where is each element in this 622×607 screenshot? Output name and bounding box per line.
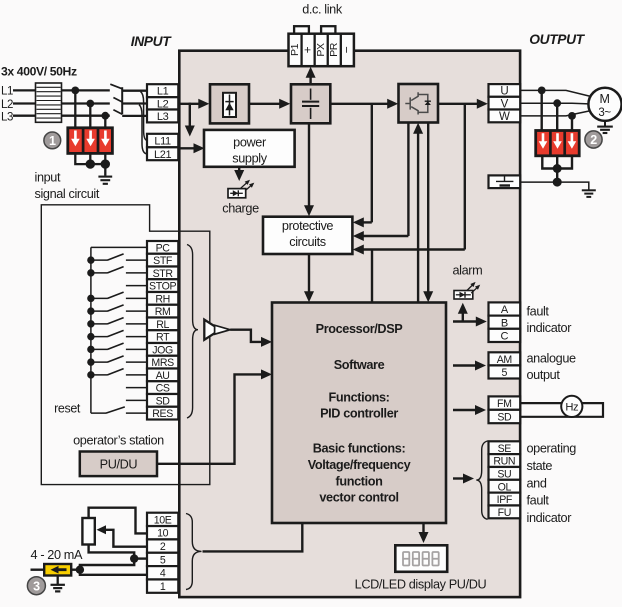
- svg-text:4 - 20 mA: 4 - 20 mA: [31, 548, 83, 562]
- operator station box PU/DU: [80, 452, 157, 477]
- seven segment digits 8888: [403, 552, 439, 566]
- wire W down to arrester: [571, 116, 573, 132]
- svg-text:RT: RT: [156, 332, 170, 344]
- svg-text:input: input: [35, 171, 61, 185]
- arrow down toward charge LED: [234, 170, 244, 181]
- terminal STR stub: [126, 272, 148, 274]
- terminal block L1 L2 L3: [147, 84, 178, 97]
- wire branch up to alarm LED: [462, 313, 464, 322]
- wire branch down to power supply: [189, 103, 191, 127]
- switch wire JOG: [91, 348, 108, 350]
- junction dot MRS: [87, 358, 94, 365]
- svg-text:PC: PC: [156, 242, 171, 254]
- arrow into IGBT box: [387, 99, 398, 109]
- tap wire to terminal L21: [139, 105, 148, 154]
- switch blade AU: [108, 369, 124, 375]
- charge LED: [228, 189, 246, 198]
- arrow into protective circuits right edge middle: [353, 231, 364, 241]
- svg-text:Basic functions:: Basic functions:: [313, 442, 406, 456]
- svg-text:PR: PR: [328, 42, 340, 57]
- switch blade JOG: [108, 343, 124, 349]
- svg-text:FM: FM: [497, 398, 512, 410]
- junction dot output bus: [553, 164, 562, 173]
- switch blade MRS: [108, 356, 124, 362]
- wire L3 down to arrester: [104, 116, 106, 129]
- switch linkage bar: [121, 87, 123, 114]
- svg-text:1: 1: [49, 134, 56, 148]
- junction dot L3: [101, 112, 109, 120]
- svg-text:and: and: [527, 476, 547, 490]
- arrow into terminal B: [476, 317, 487, 327]
- svg-text:PU/DU: PU/DU: [100, 457, 138, 471]
- svg-text:5: 5: [502, 367, 508, 379]
- wire DC bus sense into protective circuits: [362, 221, 372, 223]
- svg-text:SD: SD: [156, 395, 171, 407]
- svg-text:fault: fault: [527, 305, 550, 319]
- d.c. link jumper tab PX-PR: [321, 26, 335, 35]
- svg-text:INPUT: INPUT: [131, 34, 172, 49]
- svg-text:Functions:: Functions:: [328, 391, 389, 405]
- capacitor box: [291, 84, 330, 123]
- svg-text:protective: protective: [282, 219, 334, 233]
- terminal block L11 L21: [147, 134, 178, 148]
- svg-text:L1: L1: [1, 86, 13, 98]
- switch blade RES (reset): [91, 412, 106, 414]
- input surge arrester block: [68, 128, 113, 154]
- terminal block PC..RES: [147, 241, 178, 254]
- wire arrester2 to ground bus: [89, 153, 91, 164]
- svg-text:10: 10: [157, 528, 169, 540]
- wire L11/L21 to power supply: [178, 147, 196, 149]
- junction dot AU: [87, 371, 94, 378]
- Hz meter circle: [561, 396, 582, 417]
- svg-text:B: B: [501, 317, 508, 329]
- arrow down into protective circuits: [304, 205, 314, 216]
- svg-text:W: W: [499, 111, 510, 123]
- arrow into terminal AM: [475, 361, 486, 371]
- output surge arrester block: [536, 131, 580, 156]
- wire dot up to terminal 5 junction: [80, 559, 134, 570]
- svg-text:3x 400V/ 50Hz: 3x 400V/ 50Hz: [1, 65, 77, 79]
- charge LED emission arrows: [241, 181, 249, 188]
- junction dot STR: [87, 269, 94, 276]
- junction dot JOG: [87, 346, 94, 353]
- wire capacitor bottom down to protective circuits: [308, 123, 310, 208]
- svg-text:RM: RM: [155, 306, 171, 318]
- terminal RH stub: [126, 297, 148, 299]
- svg-text:vector control: vector control: [319, 491, 398, 505]
- wire V to motor: [520, 102, 589, 105]
- wire processor to LCD display: [422, 523, 424, 534]
- terminal STF stub: [126, 259, 148, 261]
- junction dot ground bus right: [101, 159, 110, 168]
- wire IGBT feedback down to processor: [427, 123, 429, 294]
- wire to frequency meter output: [453, 409, 477, 411]
- arrow into processor top: [304, 291, 314, 302]
- svg-text:OL: OL: [498, 481, 512, 493]
- wire phase L3 in: [13, 115, 110, 117]
- terminal RL stub: [126, 323, 148, 325]
- curly brace state terminals: [476, 441, 487, 519]
- svg-text:power: power: [233, 135, 267, 149]
- svg-text:supply: supply: [232, 152, 267, 166]
- input signal circuit boundary loop: [41, 205, 210, 485]
- svg-text:SD: SD: [497, 412, 512, 424]
- wire gate drive processor to IGBT: [417, 131, 419, 303]
- terminal JOG stub: [126, 348, 148, 350]
- wire to operating state outputs: [453, 477, 465, 479]
- arrow down toward power supply feed: [185, 126, 195, 137]
- svg-text:4: 4: [160, 568, 166, 580]
- svg-text:PID controller: PID controller: [320, 407, 398, 421]
- ground symbol input side: [98, 176, 112, 178]
- arrow up into d.c. link: [306, 67, 316, 78]
- wire output arrester3 to bus: [557, 156, 572, 169]
- svg-text:MRS: MRS: [151, 357, 174, 369]
- junction dot earth line: [553, 178, 562, 187]
- potentiometer: [82, 518, 94, 545]
- switch wire RL: [91, 323, 108, 325]
- junction dot RT: [87, 333, 94, 340]
- wire potentiometer bottom: [89, 545, 135, 559]
- svg-text:charge: charge: [222, 202, 259, 216]
- svg-text:circuits: circuits: [289, 235, 325, 249]
- frequency meter loop: [520, 403, 603, 417]
- arrow into display: [419, 532, 429, 543]
- svg-text:indicator: indicator: [527, 321, 573, 335]
- switch wire MRS: [91, 361, 108, 363]
- svg-text:−: −: [340, 46, 354, 53]
- potentiometer wiper arrow: [97, 525, 107, 534]
- wire power supply to charge LED: [238, 167, 240, 173]
- terminal block FM SD: [489, 396, 521, 409]
- arrow up into IGBT bottom: [413, 123, 423, 134]
- LCD/LED display box: [395, 545, 447, 572]
- current source 4-20mA: [44, 564, 71, 576]
- svg-text:P1: P1: [289, 43, 301, 56]
- wire to analogue output: [453, 364, 477, 366]
- IGBT inverter box: [399, 84, 439, 123]
- terminal block SE RUN SU OL IPF FU: [489, 441, 521, 454]
- arrow into power supply: [194, 143, 205, 153]
- wire bus to terminal PC: [91, 246, 148, 248]
- wire arrester1 to ground bus: [75, 153, 90, 164]
- arrow into rectifier: [198, 99, 209, 109]
- wire current source to dot: [71, 569, 80, 571]
- svg-text:Processor/DSP: Processor/DSP: [316, 322, 404, 336]
- svg-text:AU: AU: [156, 370, 170, 382]
- wire U down to arrester: [541, 90, 543, 131]
- terminal block 10E 10 2 5 4 1: [147, 513, 178, 526]
- terminal block A B C: [489, 302, 521, 315]
- ground symbol motor: [597, 126, 613, 128]
- svg-text:Hz: Hz: [565, 402, 579, 414]
- wire ground bus to earth: [90, 163, 105, 165]
- motor M 3~: [588, 88, 621, 121]
- svg-text:STF: STF: [153, 255, 173, 267]
- junction dot W: [568, 112, 576, 120]
- svg-text:signal circuit: signal circuit: [35, 187, 100, 201]
- wire motor to ground: [604, 121, 606, 126]
- wire protective circuits down to processor: [308, 254, 310, 295]
- svg-text:AM: AM: [497, 354, 512, 366]
- svg-text:fault: fault: [527, 494, 550, 508]
- processor box: [272, 303, 446, 524]
- wire L2 down to arrester: [89, 104, 91, 130]
- control terminal bus: [90, 247, 92, 413]
- svg-text:SE: SE: [498, 443, 512, 455]
- d.c. link jumper tab P1-+: [294, 26, 309, 35]
- svg-text:L3: L3: [157, 111, 169, 123]
- svg-text:A: A: [501, 304, 509, 316]
- rectifier box: [210, 84, 249, 123]
- wire into protective circuits bottom: [362, 248, 465, 250]
- switch wire STF: [91, 259, 108, 261]
- terminal SD stub: [126, 399, 148, 401]
- junction dot terminal 5 wire: [130, 554, 138, 562]
- switch blade STF: [108, 254, 124, 260]
- buffer triangle large: [204, 320, 220, 340]
- junction dot RL: [87, 320, 94, 327]
- svg-text:PX: PX: [315, 43, 327, 57]
- numbered circle 3: [27, 577, 45, 595]
- wire switch to terminal L1: [122, 90, 147, 92]
- switch blade L3: [113, 110, 122, 115]
- ground symbol output side: [582, 189, 596, 191]
- svg-text:2: 2: [590, 133, 597, 147]
- arrow into capacitor box: [279, 99, 290, 109]
- svg-text:L1: L1: [157, 86, 169, 98]
- junction dot RM: [87, 307, 94, 314]
- wire W to motor: [520, 111, 591, 116]
- svg-text:state: state: [527, 459, 553, 473]
- junction dot current source: [76, 566, 84, 574]
- wire buffers to processor: [230, 330, 263, 342]
- svg-text:L3: L3: [1, 112, 13, 124]
- arrow into protective circuits right edge top: [353, 217, 364, 227]
- inverter main block enclosure: [179, 51, 520, 597]
- svg-text:1: 1: [160, 581, 166, 593]
- junction dot RH: [87, 295, 94, 302]
- switch wire RT: [91, 336, 108, 338]
- alarm LED: [454, 291, 473, 300]
- power supply box: [204, 130, 295, 167]
- wire wiper to terminal 2: [105, 530, 148, 547]
- wire into protective circuits middle: [362, 235, 408, 237]
- svg-text:10E: 10E: [154, 514, 172, 526]
- curly brace control terminals: [187, 245, 198, 419]
- arrow down into processor top right: [423, 291, 433, 302]
- tap wire to terminal L11: [141, 92, 148, 141]
- numbered circle 1: [44, 132, 61, 149]
- svg-text:operator’s station: operator’s station: [73, 434, 164, 448]
- wire switch to terminal L3: [122, 115, 147, 117]
- arrow into processor left edge lower: [261, 369, 272, 379]
- wire analog brace to processor bottom: [203, 523, 303, 551]
- svg-text:L21: L21: [154, 149, 171, 161]
- switch blade L1: [110, 84, 122, 89]
- curly brace analog terminals: [186, 514, 202, 590]
- svg-text:CS: CS: [156, 383, 170, 395]
- wire phase L2 in: [13, 102, 110, 104]
- arrow into processor left edge upper: [261, 337, 272, 347]
- arrester down arrows white: [71, 131, 80, 147]
- junction dot U: [538, 87, 546, 95]
- junction dot ground bus left: [86, 159, 95, 168]
- svg-text:reset: reset: [54, 402, 81, 416]
- wire output arrester2 to bus: [556, 156, 558, 169]
- terminal RES stub: [126, 412, 148, 414]
- wire phase L1 in: [13, 89, 110, 91]
- arrow up toward alarm LED: [458, 303, 468, 314]
- svg-text:M: M: [599, 92, 609, 106]
- junction dot STF: [87, 256, 94, 263]
- svg-text:function: function: [336, 475, 383, 489]
- alarm LED emission arrows: [467, 283, 475, 291]
- svg-text:3~: 3~: [598, 107, 611, 119]
- svg-text:RL: RL: [156, 319, 169, 331]
- wire IGBT to output terminal V: [438, 103, 479, 105]
- numbered circle 2: [585, 131, 602, 148]
- wire dot to terminal 4: [80, 570, 148, 575]
- svg-text:RES: RES: [152, 408, 173, 420]
- svg-text:FU: FU: [498, 507, 511, 519]
- svg-text:operating: operating: [527, 442, 577, 456]
- terminal MRS stub: [126, 361, 148, 363]
- switch blade L2: [113, 98, 122, 103]
- wire rectifier to capacitor: [249, 103, 281, 105]
- svg-text:LCD/LED display PU/DU: LCD/LED display PU/DU: [355, 577, 487, 591]
- svg-text:alarm: alarm: [452, 263, 482, 277]
- svg-text:Software: Software: [334, 358, 385, 372]
- svg-text:Voltage/frequency: Voltage/frequency: [308, 458, 411, 472]
- wire output sense down: [464, 104, 466, 250]
- svg-text:C: C: [501, 331, 509, 343]
- arrow into protective circuits right edge bottom: [353, 245, 364, 255]
- svg-text:STOP: STOP: [149, 281, 176, 293]
- svg-text:RUN: RUN: [493, 456, 515, 468]
- wire L1 down to arrester: [74, 90, 76, 129]
- wire bus down to earth line: [556, 169, 558, 183]
- wire IGBT lower-left pin down: [407, 123, 409, 237]
- terminal CS stub: [126, 387, 148, 389]
- switch wire RM: [91, 310, 108, 312]
- terminal block U V W: [489, 84, 521, 97]
- output arrester down arrows white: [539, 133, 548, 149]
- wire into terminal 5: [134, 557, 147, 559]
- wire arrester3 to ground bus: [104, 153, 106, 164]
- svg-text:RH: RH: [155, 293, 170, 305]
- svg-text:5: 5: [160, 554, 166, 566]
- svg-text:+: +: [300, 46, 314, 53]
- arrow toward state brace: [463, 474, 474, 484]
- svg-text:output: output: [527, 368, 561, 382]
- wire U to motor: [520, 90, 591, 96]
- wire DC bus sense down: [371, 104, 373, 223]
- svg-text:OUTPUT: OUTPUT: [529, 32, 585, 47]
- wire capacitor up to d.c. link terminals: [309, 75, 311, 85]
- input filter choke block: [36, 83, 62, 122]
- switch blade STR: [108, 267, 124, 273]
- EMC capacitor terminal box: [489, 175, 521, 188]
- earth wire to ground: [520, 182, 589, 190]
- wire output sense branch down to processor: [371, 250, 373, 303]
- wire switch to terminal L2: [122, 102, 147, 104]
- svg-text:JOG: JOG: [152, 344, 173, 356]
- switch wire AU: [91, 374, 108, 376]
- junction dot L2: [86, 100, 94, 108]
- wire potentiometer top to terminal 10: [89, 508, 148, 534]
- svg-text:IPF: IPF: [497, 494, 513, 506]
- buffer triangle small: [215, 325, 231, 334]
- junction dot L1: [71, 87, 79, 95]
- terminal STOP stub: [126, 285, 148, 287]
- svg-text:2: 2: [160, 541, 166, 553]
- svg-text:indicator: indicator: [527, 511, 573, 525]
- switch blade RT: [108, 330, 124, 336]
- junction dot V: [553, 99, 561, 107]
- arrow into terminal V: [477, 99, 488, 109]
- wire V down to arrester: [556, 103, 558, 131]
- wire capacitor to IGBT inverter: [330, 103, 389, 105]
- switch blade RH: [108, 292, 124, 298]
- terminal block AM 5: [489, 352, 521, 365]
- d.c. link terminal block P1 + PX PR -: [289, 34, 354, 66]
- svg-text:L2: L2: [1, 99, 13, 111]
- arrow into terminal FM: [475, 405, 486, 415]
- ground symbol current source: [57, 576, 59, 585]
- svg-text:d.c. link: d.c. link: [302, 3, 343, 17]
- wire L2 phase into rectifier: [178, 103, 200, 105]
- svg-text:SU: SU: [497, 468, 511, 480]
- svg-text:3: 3: [33, 579, 40, 593]
- wire output arrester1 to bus: [542, 156, 557, 169]
- switch wire STR: [91, 272, 108, 274]
- svg-text:analogue: analogue: [527, 352, 576, 366]
- svg-text:STR: STR: [153, 268, 174, 280]
- svg-text:L11: L11: [154, 136, 171, 148]
- switch blade RM: [108, 305, 124, 311]
- terminal AU stub: [126, 374, 148, 376]
- wire alarm from processor: [453, 320, 478, 322]
- terminal RT stub: [126, 336, 148, 338]
- switch blade RL: [108, 318, 124, 324]
- terminal RM stub: [126, 310, 148, 312]
- protective circuits box: [263, 217, 352, 254]
- wire PU/DU to processor: [157, 374, 264, 463]
- wire stub current source left: [31, 569, 45, 571]
- switch wire RH: [91, 297, 108, 299]
